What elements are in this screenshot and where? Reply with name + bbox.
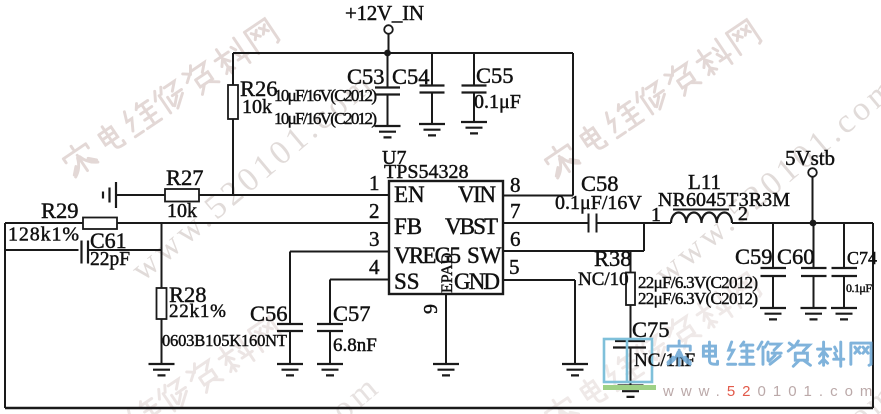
svg-text:10μF/16V(C2012): 10μF/16V(C2012) bbox=[274, 109, 377, 128]
svg-text:C75: C75 bbox=[632, 317, 670, 342]
svg-text:NR6045T3R3M: NR6045T3R3M bbox=[658, 189, 790, 211]
svg-text:22pF: 22pF bbox=[90, 249, 130, 270]
svg-text:SS: SS bbox=[394, 269, 420, 294]
svg-text:6: 6 bbox=[510, 227, 521, 251]
svg-text:128k1%: 128k1% bbox=[8, 224, 79, 246]
svg-text:0.1μF: 0.1μF bbox=[474, 91, 521, 113]
svg-text:R29: R29 bbox=[41, 198, 79, 223]
svg-text:8: 8 bbox=[510, 173, 521, 197]
svg-text:1: 1 bbox=[651, 204, 661, 226]
svg-text:SW: SW bbox=[467, 243, 502, 268]
svg-text:R27: R27 bbox=[166, 165, 204, 190]
svg-text:9: 9 bbox=[420, 304, 442, 314]
svg-text:1: 1 bbox=[369, 171, 380, 195]
svg-text:C57: C57 bbox=[333, 301, 371, 326]
svg-text:C74: C74 bbox=[847, 248, 877, 268]
svg-text:2: 2 bbox=[369, 199, 380, 223]
svg-text:+12V_IN: +12V_IN bbox=[345, 1, 424, 25]
svg-text:0603B105K160NT: 0603B105K160NT bbox=[162, 331, 287, 350]
svg-text:5Vstb: 5Vstb bbox=[785, 146, 835, 170]
svg-text:TPS54328: TPS54328 bbox=[384, 161, 468, 183]
svg-text:VIN: VIN bbox=[458, 182, 496, 207]
svg-text:10k: 10k bbox=[167, 200, 197, 222]
svg-text:3: 3 bbox=[369, 227, 380, 251]
svg-text:www.520101.com: www.520101.com bbox=[662, 383, 879, 400]
svg-text:C53: C53 bbox=[347, 64, 385, 89]
svg-text:EN: EN bbox=[394, 182, 425, 207]
svg-text:C59: C59 bbox=[735, 244, 773, 269]
svg-text:10k: 10k bbox=[242, 96, 272, 118]
svg-text:C55: C55 bbox=[476, 63, 514, 88]
svg-text:7: 7 bbox=[510, 199, 521, 223]
svg-text:6.8nF: 6.8nF bbox=[333, 335, 377, 356]
svg-text:4: 4 bbox=[369, 255, 380, 279]
svg-text:GND: GND bbox=[454, 269, 500, 294]
svg-text:NC/10: NC/10 bbox=[578, 269, 629, 290]
svg-text:0.1μF: 0.1μF bbox=[846, 281, 872, 295]
svg-text:5: 5 bbox=[509, 255, 520, 279]
svg-text:C54: C54 bbox=[392, 64, 430, 89]
svg-text:FB: FB bbox=[394, 214, 422, 239]
svg-text:22μF/6.3V(C2012): 22μF/6.3V(C2012) bbox=[638, 289, 758, 308]
svg-text:EPAD: EPAD bbox=[439, 253, 456, 293]
svg-text:VBST: VBST bbox=[445, 214, 498, 239]
svg-text:0.1μF/16V: 0.1μF/16V bbox=[555, 192, 642, 214]
svg-text:22k1%: 22k1% bbox=[169, 301, 226, 322]
svg-text:C56: C56 bbox=[250, 301, 288, 326]
svg-text:2: 2 bbox=[738, 203, 748, 225]
svg-text:R38: R38 bbox=[594, 246, 632, 271]
svg-text:C60: C60 bbox=[777, 244, 815, 269]
